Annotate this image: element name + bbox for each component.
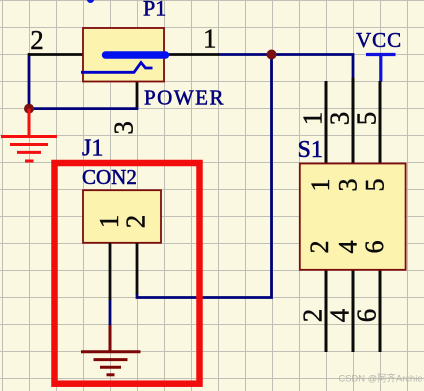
stray blue mark at top edge: [87, 0, 94, 3]
switch S1 body: [300, 164, 406, 270]
svg-text:2: 2: [305, 241, 334, 254]
svg-text:3: 3: [334, 179, 363, 192]
svg-text:3: 3: [324, 112, 354, 126]
switch S1 pin 6: [379, 270, 382, 352]
svg-text:3: 3: [108, 121, 138, 135]
wire: navy long vertical from top junction down and left to J1 pin2: [137, 55, 272, 298]
wire: navy vertical from P1 pin2 down to ground junction: [28, 53, 31, 108]
switch P1 body: [83, 28, 164, 82]
svg-text:4: 4: [334, 241, 363, 254]
junction dot at top wire: [267, 50, 277, 60]
svg-text:VCC: VCC: [356, 28, 402, 52]
svg-text:J1: J1: [82, 136, 103, 162]
svg-text:S1: S1: [298, 137, 323, 163]
svg-text:1: 1: [203, 23, 217, 53]
svg-text:CON2: CON2: [82, 165, 137, 189]
switch P1 pin 2: [28, 53, 84, 56]
connector J1 pin 1: [109, 243, 112, 300]
svg-text:1: 1: [306, 179, 335, 192]
svg-text:2: 2: [30, 25, 44, 55]
connector J1 body: [83, 190, 161, 243]
wire: navy segment below J1 pin1 to ground: [109, 299, 112, 326]
switch P1 pin 1: [163, 53, 219, 56]
svg-text:2: 2: [121, 215, 151, 229]
ground symbol (dark red) below J1: [81, 325, 141, 375]
VCC power symbol: [366, 55, 396, 82]
wire: navy horizontal top run from P1 pin1 to S1 pin3 column: [218, 55, 353, 80]
switch S1 pin 2: [325, 270, 328, 352]
svg-text:4: 4: [324, 308, 354, 322]
switch S1 pin 5: [379, 81, 382, 163]
svg-text:6: 6: [360, 241, 389, 254]
switch P1 contact bar: [106, 51, 166, 58]
svg-text:1: 1: [297, 112, 327, 126]
switch S1 pin 4: [352, 270, 355, 352]
power ground symbol (red): [1, 109, 57, 161]
switch P1 lever: [81, 63, 153, 73]
svg-text:5: 5: [361, 179, 390, 192]
junction dot at ground node: [24, 104, 34, 114]
switch S1 pin 3: [352, 78, 355, 163]
svg-text:CSDN @阿齐Archie: CSDN @阿齐Archie: [339, 372, 423, 383]
svg-text:POWER: POWER: [144, 86, 225, 110]
connector J1 pin 2: [136, 243, 139, 294]
svg-text:6: 6: [351, 309, 381, 323]
wire: navy horizontal from ground junction to P1 pin3: [29, 106, 137, 109]
svg-text:5: 5: [351, 112, 381, 126]
switch P1 pin 3: [136, 81, 139, 107]
svg-text:2: 2: [297, 309, 327, 323]
svg-text:P1: P1: [143, 0, 166, 21]
svg-text:1: 1: [94, 215, 124, 229]
switch S1 pin 1: [325, 81, 328, 163]
highlight rectangle around J1: [55, 163, 200, 384]
